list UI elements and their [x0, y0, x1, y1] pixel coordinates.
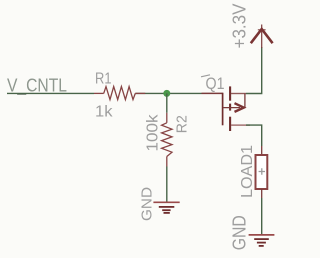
- transistor Q1 arrowhead: [235, 103, 244, 112]
- supply +3.3V arrow: [251, 25, 273, 49]
- transistor Q1 channel top bar (source): [229, 86, 231, 100]
- LOAD1 plus polarity mark: [259, 168, 265, 174]
- resistor R2: [162, 113, 172, 167]
- transistor Q1 gate lead: [202, 92, 223, 94]
- transistor Q1 bulk line: [244, 94, 246, 108]
- transistor Q1 channel middle bar: [229, 104, 231, 111]
- LOAD1 top pin: [261, 146, 263, 155]
- transistor Q1 channel bottom bar (drain): [229, 117, 231, 131]
- wire drain to LOAD1: [246, 125, 262, 146]
- svg-text:1k: 1k: [95, 104, 114, 121]
- transistor Q1 tick mark: [201, 75, 210, 77]
- svg-text:R2: R2: [173, 115, 190, 133]
- wire junction down to R2: [166, 93, 168, 112]
- transistor Q1 source pin: [231, 93, 246, 95]
- transistor Q1 drain pin: [231, 124, 250, 126]
- svg-text:GND: GND: [230, 215, 250, 250]
- wire LOAD1 to GND: [261, 198, 263, 235]
- transistor Q1 gate plate: [222, 93, 224, 126]
- wire source to +3.3V: [246, 47, 262, 94]
- svg-text:LOAD1: LOAD1: [239, 145, 256, 198]
- svg-text:100k: 100k: [145, 114, 162, 151]
- junction node: [163, 90, 170, 97]
- svg-text:GND: GND: [138, 187, 155, 221]
- ground symbol (right, below LOAD1): [249, 235, 275, 246]
- svg-text:Q1: Q1: [206, 75, 225, 93]
- load LOAD1 body: [256, 155, 268, 189]
- wire V_CNTL to R1: [7, 92, 94, 94]
- wire R2 to GND: [166, 167, 168, 203]
- wire R1 to junction to Q1 gate: [135, 92, 201, 94]
- LOAD1 bottom pin: [261, 189, 263, 198]
- resistor R1: [94, 87, 145, 100]
- svg-text:+3.3V: +3.3V: [230, 4, 250, 49]
- transistor Q1 body-diode arrow shaft: [223, 107, 240, 109]
- svg-text:R1: R1: [95, 71, 112, 88]
- ground symbol (left, below R2): [153, 202, 179, 213]
